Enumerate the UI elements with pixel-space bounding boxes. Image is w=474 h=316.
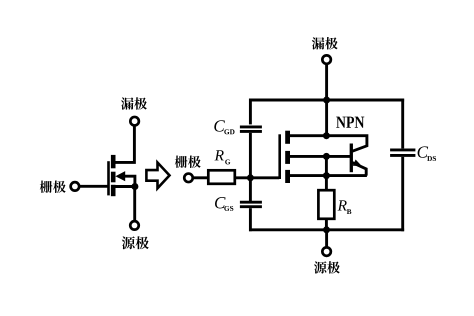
wire: right drain lead bbox=[325, 65, 328, 102]
wire: body to source node (left) bbox=[123, 176, 135, 186]
transistor Q1 emitter wire bbox=[352, 162, 366, 175]
label source (源极) right figure bbox=[314, 261, 327, 273]
wire: central line from top rail bbox=[325, 100, 328, 136]
resistor R_B bbox=[318, 190, 334, 219]
wire: top rail (drain bus) bbox=[249, 99, 404, 102]
MOSFET M2 channel source segment bbox=[285, 170, 290, 183]
wire: bottom rail (source bus) bbox=[249, 228, 404, 231]
capacitor C_DS bottom plate bbox=[390, 154, 415, 157]
MOSFET M2 gate plate bbox=[278, 134, 281, 179]
terminal: left drain bbox=[130, 117, 139, 126]
wire: left source wire bbox=[113, 185, 135, 188]
wire: right box edge upper bbox=[401, 99, 404, 149]
wire: body wire to NPN base bbox=[288, 155, 350, 158]
wire: left box edge upper bbox=[249, 99, 252, 125]
MOSFET M1 channel drain segment bbox=[111, 155, 116, 168]
label C_GS bbox=[215, 197, 226, 208]
label R_G bbox=[214, 150, 223, 160]
label C_DS bbox=[418, 146, 429, 157]
MOSFET M1 channel body segment bbox=[111, 172, 116, 183]
label NPN bbox=[336, 117, 364, 128]
MOSFET M2 channel drain segment bbox=[285, 131, 290, 144]
junction: source wire node bbox=[323, 172, 330, 179]
wire: R_B to bottom rail bbox=[325, 219, 328, 231]
label R_B bbox=[337, 200, 346, 210]
label drain (漏极) right figure bbox=[312, 37, 325, 49]
terminal: right drain bbox=[322, 55, 331, 64]
wire: left box edge middle bbox=[249, 133, 252, 201]
wire: left gate lead bbox=[79, 185, 110, 188]
label source (源极) left figure bbox=[122, 236, 135, 249]
wire: body node down to R_B bbox=[325, 156, 328, 190]
junction: left source node bbox=[131, 183, 138, 190]
junction: gate node on left box edge bbox=[247, 174, 254, 181]
block arrow (equivalence) bbox=[146, 163, 169, 189]
junction: source bus node bbox=[323, 226, 330, 233]
capacitor C_GD bottom plate bbox=[240, 130, 262, 133]
wire: source wire to emitter bbox=[288, 174, 367, 177]
junction: drain lead / top rail bbox=[323, 97, 330, 104]
capacitor C_GD top plate bbox=[240, 125, 262, 128]
terminal: left gate bbox=[71, 182, 80, 191]
wire: R_G to MOSFET gate bbox=[235, 176, 279, 179]
wire: left box edge lower bbox=[249, 208, 252, 231]
label gate (栅极) left figure bbox=[40, 181, 53, 193]
wire: bottom rail to source terminal bbox=[325, 230, 328, 247]
terminal: left source bbox=[130, 221, 139, 230]
terminal: right source bbox=[322, 247, 331, 256]
junction: body wire node bbox=[323, 153, 330, 160]
terminal: right gate bbox=[184, 174, 193, 183]
label drain (漏极) left figure bbox=[121, 97, 134, 109]
MOSFET M1 gate plate bbox=[107, 161, 110, 195]
MOSFET M2 channel body segment bbox=[285, 151, 290, 164]
junction: drain wire / central line bbox=[323, 132, 330, 139]
MOSFET M1 body arrow bbox=[115, 171, 125, 181]
label C_GD bbox=[214, 120, 225, 131]
capacitor C_GS top plate bbox=[240, 201, 262, 204]
wire: right box edge lower bbox=[401, 157, 404, 231]
wire: left drain lead bbox=[113, 126, 134, 162]
wire: left source lead bbox=[133, 187, 136, 221]
capacitor C_GS bottom plate bbox=[240, 205, 262, 208]
resistor R_G bbox=[208, 170, 235, 184]
label gate (栅极) right figure bbox=[175, 156, 188, 168]
transistor Q1 emitter arrow bbox=[353, 160, 362, 167]
MOSFET M1 channel source segment bbox=[111, 185, 116, 196]
capacitor C_DS top plate bbox=[390, 148, 415, 151]
transistor Q1 NPN base bar bbox=[350, 144, 353, 173]
wire: drain wire / collector wire bbox=[288, 136, 367, 152]
wire: gate terminal to R_G bbox=[193, 176, 209, 179]
